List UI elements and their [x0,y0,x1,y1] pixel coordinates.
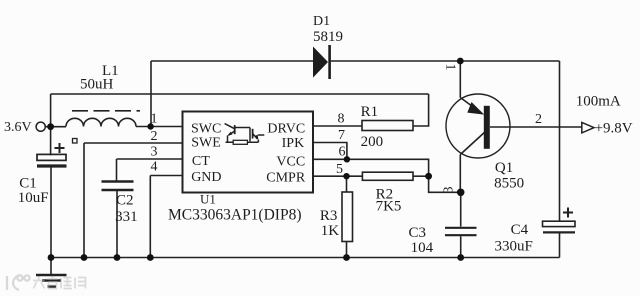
svg-text:8: 8 [338,112,345,127]
svg-text:SWE: SWE [191,135,221,150]
svg-text:CMPR: CMPR [266,170,306,185]
svg-text:5819: 5819 [313,29,343,45]
svg-text:DRVC: DRVC [267,121,305,136]
svg-text:R3: R3 [320,208,338,224]
svg-text:1: 1 [443,64,458,71]
svg-text:200: 200 [361,134,384,150]
svg-text:50uH: 50uH [80,77,114,93]
svg-text:7K5: 7K5 [376,198,402,214]
svg-text:+9.8V: +9.8V [595,121,633,137]
svg-text:5: 5 [336,162,343,177]
svg-text:GND: GND [191,170,221,185]
svg-text:2: 2 [151,129,158,144]
svg-text:3.6V: 3.6V [4,120,32,135]
svg-text:7: 7 [338,128,345,143]
svg-text:C2: C2 [116,193,134,209]
svg-text:3: 3 [442,187,457,194]
svg-text:104: 104 [411,240,434,256]
svg-text:MC33063AP1(DIP8): MC33063AP1(DIP8) [168,207,301,224]
svg-text:8550: 8550 [494,176,524,192]
svg-text:330uF: 330uF [495,239,533,255]
svg-text:SWC: SWC [191,121,221,136]
svg-text:1K: 1K [321,223,340,239]
svg-text:3: 3 [151,145,158,160]
svg-text:100mA: 100mA [576,94,621,110]
svg-text:6: 6 [339,145,346,160]
svg-text:R1: R1 [361,104,379,120]
svg-text:C3: C3 [409,225,427,241]
svg-text:VCC: VCC [276,155,305,170]
svg-text:331: 331 [115,209,138,225]
svg-text:1: 1 [151,112,158,127]
svg-text:4: 4 [151,160,158,175]
svg-text:IPK: IPK [282,136,305,151]
svg-text:2: 2 [535,112,542,127]
svg-text:D1: D1 [313,14,330,29]
svg-text:C4: C4 [511,222,529,238]
svg-text:U1: U1 [200,192,216,207]
svg-text:Q1: Q1 [495,160,513,176]
svg-text:10uF: 10uF [18,190,49,206]
svg-text:CT: CT [192,154,210,169]
